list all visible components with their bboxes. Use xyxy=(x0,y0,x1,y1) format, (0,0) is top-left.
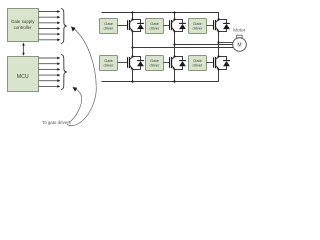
wire: leg 1 midpoint vertical xyxy=(132,32,134,57)
svg-text:driver: driver xyxy=(149,63,160,68)
svg-text:driver: driver xyxy=(103,63,114,68)
MCU block xyxy=(8,57,39,92)
gate driver U4 (low side, leg 1) xyxy=(100,56,118,71)
DC+ top rail xyxy=(102,13,219,20)
gate supply output wire 3 xyxy=(39,21,61,24)
freewheeling diode D3 xyxy=(219,20,227,32)
MCU PWM output wire 6 xyxy=(39,85,61,88)
node: Q5 emitter junction xyxy=(174,69,176,71)
node: Q6 collector junction xyxy=(217,55,219,57)
wire: leg 3 midpoint vertical xyxy=(218,32,220,57)
junction: phase W output tap xyxy=(217,41,219,43)
gate driver U6 (low side, leg 3) xyxy=(189,56,207,71)
bidirectional bus between gate supply controller and MCU xyxy=(22,43,25,56)
wire: Q5 emitter to DC- rail xyxy=(174,70,176,82)
node: Q4 collector junction xyxy=(131,55,133,57)
motor M1 xyxy=(233,35,247,51)
annotation arrow from label to gate supply brace xyxy=(67,27,96,126)
gate supply output wire 6 xyxy=(39,38,61,41)
wire: leg 2 midpoint vertical xyxy=(174,32,176,57)
node: Q5 collector junction xyxy=(173,55,175,57)
node: Q4 emitter junction xyxy=(132,69,134,71)
transistor Q5 (IGBT) xyxy=(169,57,171,68)
wire: phase W output to motor xyxy=(219,42,234,44)
wire: U5 output to Q5 gate xyxy=(164,62,170,64)
svg-text:driver: driver xyxy=(192,26,203,31)
MCU PWM output wire 4 xyxy=(39,74,61,77)
freewheeling diode D2 xyxy=(175,20,183,32)
MCU PWM output wire 3 xyxy=(39,68,61,71)
wire: U6 output to Q6 gate xyxy=(207,62,214,64)
gate driver U5 (low side, leg 2) xyxy=(146,56,164,71)
brace for MCU outputs xyxy=(61,55,67,90)
freewheeling diode D6 xyxy=(219,57,227,70)
MCU PWM output wire 5 xyxy=(39,79,61,82)
wire: U3 output to Q3 gate xyxy=(207,25,214,27)
wire: U4 output to Q4 gate xyxy=(118,62,128,64)
freewheeling diode D1 xyxy=(133,20,141,32)
annotation arrow from label to MCU brace xyxy=(69,87,82,123)
svg-text:driver: driver xyxy=(192,63,203,68)
freewheeling diode D4 xyxy=(133,57,141,70)
wire: top rail to Q1 collector xyxy=(132,13,134,20)
node: phase U (Q1 emitter / Q4 collector) xyxy=(132,31,134,33)
svg-text:Motor: Motor xyxy=(233,28,246,34)
node: phase V (Q2 emitter / Q5 collector) xyxy=(174,31,176,33)
transistor Q4 (IGBT) xyxy=(127,57,129,68)
DC- bottom rail xyxy=(102,70,219,82)
gate supply output wire 5 xyxy=(39,33,61,36)
junction on DC- rail at leg 2 xyxy=(173,80,175,82)
gate supply output wire 4 xyxy=(39,27,61,30)
transistor Q1 (IGBT) xyxy=(127,20,129,30)
wire: U1 output to Q1 gate xyxy=(118,25,128,27)
gate supply controller block xyxy=(8,9,39,42)
transistor Q3 (IGBT) xyxy=(213,20,215,30)
gate supply output wire 1 xyxy=(39,10,61,13)
brace for gate supply outputs xyxy=(61,9,67,44)
svg-text:MCU: MCU xyxy=(17,74,29,80)
gate supply output wire 2 xyxy=(39,16,61,19)
node: Q6 emitter junction xyxy=(218,69,220,71)
wire: Q4 emitter to DC- rail xyxy=(132,70,134,82)
wire: U2 output to Q2 gate xyxy=(164,25,170,27)
svg-text:M: M xyxy=(237,42,241,48)
junction on DC- rail at leg 1 xyxy=(131,80,133,82)
wire: top rail to Q2 collector xyxy=(174,13,176,20)
svg-text:controller: controller xyxy=(14,25,33,30)
freewheeling diode D5 xyxy=(175,57,183,70)
svg-text:driver: driver xyxy=(103,26,114,31)
junction on DC+ rail at leg 2 xyxy=(173,11,175,13)
junction: phase V output tap xyxy=(173,43,175,45)
MCU PWM output wire 1 xyxy=(39,57,61,60)
transistor Q6 (IGBT) xyxy=(213,57,215,68)
svg-text:driver: driver xyxy=(149,26,160,31)
gate driver U2 (high side, leg 2) xyxy=(146,19,164,34)
node: phase W (Q3 emitter / Q6 collector) xyxy=(218,31,220,33)
MCU PWM output wire 2 xyxy=(39,62,61,65)
node: Q2 collector junction xyxy=(173,18,175,20)
svg-text:Gate supply: Gate supply xyxy=(11,19,35,24)
wire: phase V output to motor xyxy=(175,44,233,46)
transistor Q2 (IGBT) xyxy=(169,20,171,30)
node: Q3 collector junction xyxy=(217,18,219,20)
gate driver U1 (high side, leg 1) xyxy=(100,19,118,34)
junction: phase U output tap xyxy=(131,46,133,48)
node: Q1 collector junction xyxy=(131,18,133,20)
junction on DC+ rail at leg 1 xyxy=(131,11,133,13)
svg-text:To gate drivers: To gate drivers xyxy=(42,120,72,125)
wire: phase U output to motor xyxy=(133,47,234,49)
gate driver U3 (high side, leg 3) xyxy=(189,19,207,34)
